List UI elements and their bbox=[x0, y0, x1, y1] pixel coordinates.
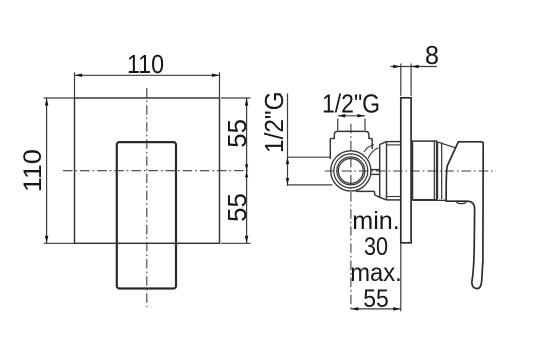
svg-text:55: 55 bbox=[222, 119, 252, 148]
svg-text:max.: max. bbox=[350, 259, 402, 287]
svg-text:110: 110 bbox=[19, 149, 47, 192]
svg-text:30: 30 bbox=[364, 233, 388, 261]
svg-text:55: 55 bbox=[222, 193, 252, 222]
svg-text:1/2"G: 1/2"G bbox=[259, 91, 289, 153]
svg-text:min.: min. bbox=[352, 207, 400, 235]
svg-text:110: 110 bbox=[127, 49, 164, 79]
svg-text:1/2"G: 1/2"G bbox=[322, 88, 380, 118]
svg-text:8: 8 bbox=[425, 40, 439, 70]
svg-text:55: 55 bbox=[363, 285, 389, 313]
